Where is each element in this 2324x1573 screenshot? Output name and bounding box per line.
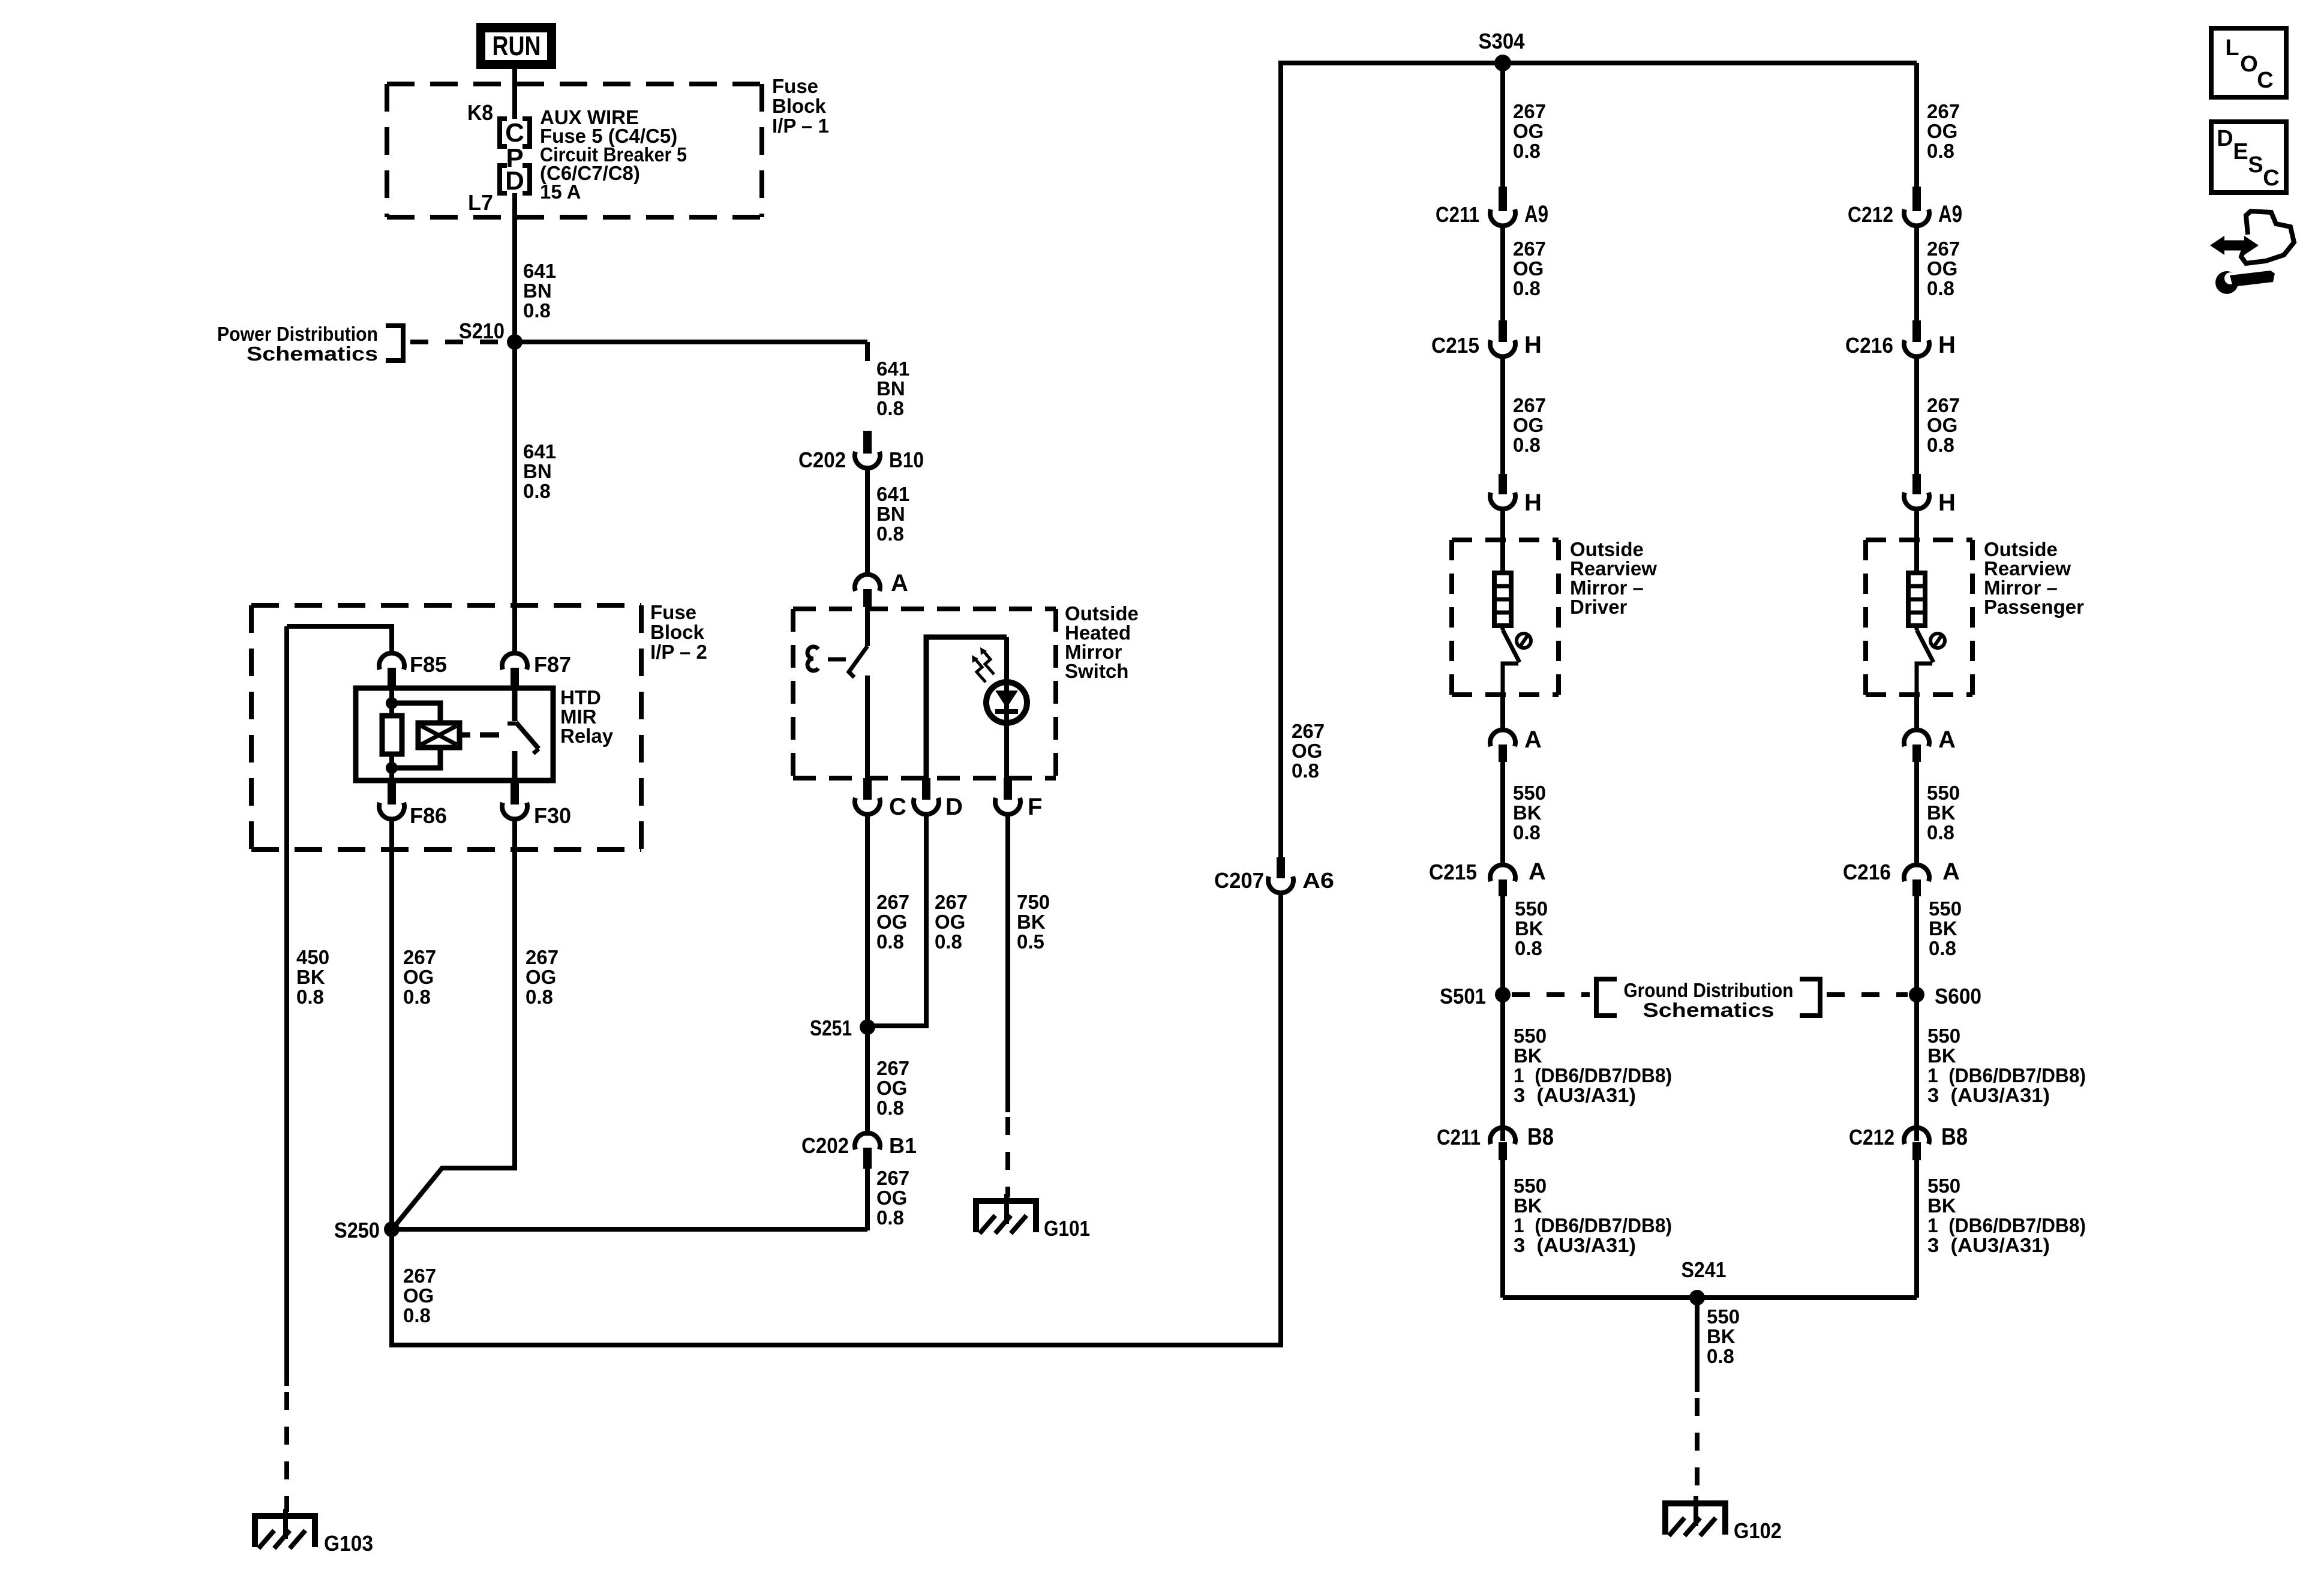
svg-text:H: H	[1938, 490, 1956, 516]
svg-text:Schematics: Schematics	[247, 343, 378, 365]
svg-text:641: 641	[523, 260, 556, 282]
svg-text:0.8: 0.8	[1927, 140, 1954, 162]
svg-text:641: 641	[876, 358, 909, 380]
svg-text:0.8: 0.8	[1707, 1345, 1734, 1367]
outside rearview mirror name label	[1984, 538, 2084, 618]
splice S501	[1440, 984, 1511, 1008]
fuse block I/P-1 dashed outline	[387, 84, 762, 217]
svg-text:BK: BK	[1515, 917, 1544, 939]
svg-text:C215: C215	[1431, 333, 1479, 358]
svg-text:267: 267	[1292, 720, 1325, 742]
LED light arrows	[972, 647, 994, 682]
svg-text:S501: S501	[1440, 984, 1486, 1008]
connector C212 pin B8	[1849, 1124, 1968, 1160]
svg-text:OG: OG	[1513, 257, 1544, 280]
svg-text:267: 267	[1927, 238, 1960, 260]
wire pin D to S251	[867, 813, 926, 1026]
wire label 550 BK 0.8 (below mirror)	[1513, 782, 1546, 843]
svg-text:267: 267	[876, 1057, 909, 1079]
svg-text:BK: BK	[1927, 1194, 1956, 1217]
svg-text:0.8: 0.8	[403, 986, 431, 1008]
svg-text:A: A	[1524, 727, 1542, 753]
svg-text:C: C	[889, 794, 906, 820]
main feed wire from S304	[1278, 61, 1917, 65]
svg-text:OG: OG	[1513, 120, 1544, 142]
wire label 267 OG 0.8 (C211 top)	[1513, 100, 1546, 162]
svg-text:BK: BK	[1927, 801, 1956, 824]
wire label 750 BK 0.5 (pin F)	[1017, 891, 1050, 953]
mirror heater element	[1908, 573, 1925, 626]
service icon outline shape	[2241, 211, 2294, 263]
svg-text:C202: C202	[798, 448, 846, 472]
wire pin F to ground G101	[1005, 813, 1010, 1197]
svg-text:267: 267	[403, 1265, 436, 1287]
svg-text:OG: OG	[403, 966, 434, 988]
svg-text:F86: F86	[410, 803, 447, 828]
svg-text:BN: BN	[523, 460, 552, 482]
jumper wire to F85	[287, 626, 392, 654]
fuse block I/P-1 name label	[772, 75, 829, 137]
svg-text:1 (DB6/DB7/DB8): 1 (DB6/DB7/DB8)	[1927, 1064, 2086, 1086]
svg-text:0.8: 0.8	[1515, 937, 1542, 959]
svg-text:E: E	[2233, 139, 2248, 164]
svg-text:Driver: Driver	[1570, 596, 1628, 618]
svg-text:A9: A9	[1524, 201, 1548, 227]
svg-text:Block: Block	[650, 621, 705, 643]
svg-text:BK: BK	[1929, 917, 1957, 939]
svg-text:F: F	[1028, 794, 1042, 820]
indicator LED	[986, 682, 1027, 723]
svg-text:I/P – 2: I/P – 2	[650, 641, 707, 663]
svg-text:B10: B10	[889, 448, 924, 472]
wire label 550 BK 0.8 (to splice)	[1929, 897, 1962, 959]
wire label 267 OG 0.8 (to mirror)	[1513, 394, 1546, 456]
svg-text:S241: S241	[1682, 1257, 1727, 1282]
svg-text:550: 550	[1514, 1175, 1547, 1197]
connector C215 pin A	[1429, 858, 1546, 896]
mirror connector pin A	[1904, 727, 1956, 762]
wire into mirror	[1500, 508, 1505, 574]
wire C215 A to splice	[1500, 896, 1505, 1141]
svg-text:0.8: 0.8	[1513, 434, 1541, 456]
svg-text:0.8: 0.8	[1929, 937, 1956, 959]
wire label 267 OG 0.8 (below C202 B1)	[876, 1167, 909, 1229]
junction S210	[459, 319, 523, 350]
connector F87	[502, 652, 571, 687]
svg-text:BK: BK	[1707, 1325, 1736, 1347]
wire to mirror conn H	[1500, 356, 1505, 474]
svg-text:S210: S210	[459, 319, 505, 343]
wire label 267 OG 0.8 (S250 down)	[403, 1265, 436, 1326]
svg-text:550: 550	[1514, 1025, 1547, 1047]
wire RUN to fuse block	[512, 69, 517, 119]
ground G102	[1662, 1496, 1782, 1543]
wire to mirror conn H	[1914, 356, 1919, 474]
connector pin F	[995, 778, 1042, 820]
connector A of heated mirror switch	[855, 570, 908, 607]
svg-text:Ground Distribution: Ground Distribution	[1624, 979, 1794, 1001]
svg-text:267: 267	[1513, 100, 1546, 122]
svg-text:OG: OG	[876, 911, 907, 933]
svg-text:Power Distribution: Power Distribution	[217, 323, 378, 345]
junction S241	[1682, 1257, 1727, 1305]
connector pin C	[855, 778, 906, 820]
wire bottom run to S241	[1503, 1295, 1917, 1300]
svg-text:L7: L7	[468, 190, 493, 215]
svg-text:C215: C215	[1429, 860, 1477, 884]
svg-text:750: 750	[1017, 891, 1050, 913]
svg-text:C211: C211	[1436, 202, 1479, 227]
svg-text:F85: F85	[410, 652, 447, 677]
svg-text:A: A	[891, 570, 908, 596]
svg-text:OG: OG	[403, 1284, 434, 1307]
connector F85	[379, 652, 447, 687]
svg-text:550: 550	[1927, 782, 1960, 804]
svg-text:S304: S304	[1479, 29, 1525, 53]
connector C202 pin B1	[801, 1133, 917, 1169]
mirror thermal switch	[1503, 626, 1531, 695]
svg-text:0.8: 0.8	[876, 1206, 904, 1229]
svg-text:A: A	[1529, 858, 1546, 885]
DESC reference box	[2211, 122, 2286, 193]
svg-text:0.8: 0.8	[1513, 140, 1541, 162]
svg-text:15 A: 15 A	[540, 181, 581, 203]
svg-text:0.8: 0.8	[1292, 760, 1319, 782]
svg-text:C216: C216	[1845, 333, 1893, 358]
svg-text:OG: OG	[1927, 414, 1957, 436]
connector C212 pin A9	[1848, 187, 1962, 227]
connector C211 pin A9	[1436, 187, 1548, 227]
svg-text:0.8: 0.8	[1927, 434, 1954, 456]
wire label 641 BN 0.8 (fuse to S210)	[523, 260, 556, 322]
wire label 267 OG 0.8 (C212 top)	[1927, 100, 1960, 162]
svg-text:550: 550	[1929, 897, 1962, 920]
svg-text:BN: BN	[876, 377, 905, 400]
svg-text:BN: BN	[876, 503, 905, 525]
fuse block I/P-2 name label	[650, 601, 707, 663]
svg-text:0.8: 0.8	[1513, 821, 1541, 843]
connector F86	[379, 781, 447, 828]
svg-text:OG: OG	[876, 1187, 907, 1209]
svg-text:A: A	[1942, 858, 1960, 885]
ignition switch RUN feed box	[476, 23, 556, 69]
wire label 267 OG 0.8 (C207 column)	[1292, 720, 1325, 782]
service icon wrench	[2215, 271, 2275, 294]
junction S251	[810, 1016, 875, 1040]
svg-text:450: 450	[296, 946, 329, 968]
outside rearview mirror dashed outline	[1452, 540, 1559, 695]
svg-text:F30: F30	[534, 803, 571, 828]
wire C202 B10 to switch conn A	[865, 467, 870, 576]
outside rearview mirror dashed outline	[1866, 540, 1972, 695]
svg-text:1 (DB6/DB7/DB8): 1 (DB6/DB7/DB8)	[1927, 1214, 2086, 1236]
ground distribution schematics reference	[1512, 979, 1908, 1021]
svg-text:BN: BN	[523, 280, 552, 302]
svg-text:OG: OG	[935, 911, 965, 933]
fuse description text	[540, 106, 687, 203]
svg-text:Passenger: Passenger	[1984, 596, 2084, 618]
svg-text:A: A	[1938, 727, 1956, 753]
svg-text:3 (AU3/A31): 3 (AU3/A31)	[1927, 1084, 2050, 1106]
svg-text:OG: OG	[876, 1077, 907, 1099]
svg-text:OG: OG	[526, 966, 556, 988]
wire C207 column up to S304 run	[1278, 63, 1283, 857]
svg-text:3 (AU3/A31): 3 (AU3/A31)	[1514, 1234, 1636, 1256]
relay switch	[508, 688, 539, 781]
HTD MIR relay name label	[560, 686, 614, 747]
svg-text:BK: BK	[1513, 801, 1542, 824]
relay resistor branch	[382, 688, 402, 781]
svg-text:0.8: 0.8	[935, 930, 962, 953]
svg-text:C211: C211	[1437, 1125, 1481, 1149]
svg-text:267: 267	[1927, 100, 1960, 122]
svg-text:267: 267	[876, 891, 909, 913]
svg-text:0.8: 0.8	[523, 480, 551, 502]
svg-text:0.8: 0.8	[876, 397, 904, 419]
svg-text:BK: BK	[1514, 1194, 1542, 1217]
connector C215 pin H	[1431, 320, 1542, 358]
svg-text:0.8: 0.8	[1927, 821, 1954, 843]
wire mirror pin A down	[1914, 762, 1919, 866]
svg-text:S251: S251	[810, 1016, 852, 1040]
svg-text:C: C	[2263, 166, 2279, 191]
svg-text:641: 641	[876, 483, 909, 505]
wire label 450 BK 0.8	[296, 946, 329, 1008]
wire label 641 BN 0.8 (S210 to C202)	[876, 358, 909, 419]
svg-text:1 (DB6/DB7/DB8): 1 (DB6/DB7/DB8)	[1514, 1214, 1672, 1236]
wire S501 column top	[1500, 63, 1505, 187]
svg-text:0.8: 0.8	[403, 1304, 431, 1326]
wire label 550 BK DB/AU (lower)	[1514, 1175, 1672, 1256]
svg-text:Fuse: Fuse	[650, 601, 696, 623]
svg-text:I/P – 1: I/P – 1	[772, 115, 829, 137]
relay actuator dashed link	[461, 733, 508, 738]
mirror connector pin A	[1490, 727, 1542, 762]
svg-text:C212: C212	[1848, 202, 1893, 227]
wire label 267 OG 0.8 (S251 to C202 B1)	[876, 1057, 909, 1119]
junction S250	[334, 1218, 400, 1242]
junction S304	[1479, 29, 1525, 71]
wire C216 A to splice	[1914, 896, 1919, 1141]
wire mirror to pin A	[1500, 695, 1505, 731]
wire label 550 BK DB/AU (upper)	[1514, 1025, 1672, 1106]
svg-text:Switch: Switch	[1065, 660, 1128, 682]
svg-text:Block: Block	[772, 95, 827, 117]
wire pin C to S251	[865, 813, 870, 1027]
svg-text:G101: G101	[1044, 1216, 1090, 1241]
svg-text:267: 267	[1513, 238, 1546, 260]
svg-text:550: 550	[1927, 1025, 1960, 1047]
wire label 550 BK 0.8 (to splice)	[1515, 897, 1548, 959]
wire F30 to S250	[394, 818, 515, 1227]
svg-text:0.5: 0.5	[1017, 930, 1044, 953]
svg-text:S250: S250	[334, 1218, 380, 1242]
connector F30	[502, 781, 571, 828]
wire F86 to S250	[389, 818, 394, 1229]
svg-text:267: 267	[526, 946, 559, 968]
svg-text:H: H	[1524, 332, 1542, 358]
wire C211 B8 to S241 run	[1500, 1160, 1505, 1298]
svg-text:G103: G103	[324, 1531, 373, 1556]
svg-text:0.8: 0.8	[526, 986, 553, 1008]
svg-text:0.8: 0.8	[1927, 277, 1954, 299]
svg-text:Fuse: Fuse	[772, 75, 818, 97]
power distribution schematics reference	[217, 323, 508, 365]
svg-text:OG: OG	[1927, 257, 1957, 280]
wire S210 to C202 B10	[515, 342, 867, 361]
ground G103	[252, 1509, 373, 1556]
wire S250 to C202 B1 column	[392, 1227, 867, 1232]
svg-text:D: D	[945, 794, 963, 820]
connector pin D	[914, 778, 963, 820]
wire 450 BK to ground G103	[284, 626, 289, 1512]
connector C216 pin A	[1843, 858, 1960, 896]
svg-text:267: 267	[403, 946, 436, 968]
wire label 550 BK DB/AU (upper)	[1927, 1025, 2086, 1106]
wire label 267 OG 0.8 (to C215 H)	[1513, 238, 1546, 299]
svg-text:C207: C207	[1214, 868, 1264, 893]
svg-text:BK: BK	[1927, 1044, 1956, 1067]
wire S210 down to F87	[512, 342, 517, 654]
LOC reference box	[2211, 28, 2286, 97]
svg-text:G102: G102	[1734, 1518, 1782, 1543]
wire label 641 BN 0.8 (S210 to fuse block 2)	[523, 440, 556, 502]
connector C216 pin H	[1845, 320, 1956, 358]
svg-text:B8: B8	[1527, 1124, 1554, 1150]
svg-text:0.8: 0.8	[523, 299, 551, 322]
wire label 267 OG 0.8 (pin D)	[935, 891, 968, 953]
svg-text:RUN: RUN	[493, 31, 541, 61]
wire S251 to C202 B1	[865, 1027, 870, 1136]
svg-text:D: D	[505, 166, 524, 196]
svg-text:A6: A6	[1302, 868, 1334, 893]
svg-text:1 (DB6/DB7/DB8): 1 (DB6/DB7/DB8)	[1514, 1064, 1672, 1086]
wire C202 B1 down to S250 run	[865, 1169, 870, 1230]
wire label 550 BK DB/AU (lower)	[1927, 1175, 2086, 1256]
svg-text:267: 267	[1513, 394, 1546, 416]
switch contact and blade	[807, 607, 867, 778]
svg-text:267: 267	[935, 891, 968, 913]
connector C207 pin A6	[1214, 857, 1334, 893]
mirror connector pin H	[1490, 474, 1542, 516]
mirror heater element	[1494, 573, 1511, 626]
connector C202 pin B10	[798, 431, 924, 472]
wire label 267 OG 0.8 (pin C)	[876, 891, 909, 953]
svg-text:K8: K8	[467, 100, 493, 125]
svg-text:Relay: Relay	[560, 725, 614, 747]
wire mirror pin A down	[1500, 762, 1505, 866]
svg-text:OG: OG	[1513, 414, 1544, 436]
svg-text:C216: C216	[1843, 860, 1891, 884]
svg-text:B1: B1	[889, 1133, 917, 1158]
svg-text:0.8: 0.8	[296, 986, 324, 1008]
outside heated mirror switch dashed outline	[793, 609, 1056, 778]
wire label 641 BN 0.8 (below C202 B10)	[876, 483, 909, 545]
svg-text:BK: BK	[296, 966, 325, 988]
fuse block I/P-2 dashed outline	[251, 605, 641, 849]
svg-text:A9: A9	[1938, 201, 1962, 227]
svg-text:O: O	[2240, 52, 2258, 77]
svg-text:0.8: 0.8	[1513, 277, 1541, 299]
svg-text:0.8: 0.8	[876, 523, 904, 545]
svg-text:B8: B8	[1941, 1124, 1968, 1150]
svg-text:3 (AU3/A31): 3 (AU3/A31)	[1927, 1234, 2050, 1256]
svg-text:267: 267	[876, 1167, 909, 1189]
wire mirror to pin A	[1914, 695, 1919, 731]
wire S600 column top	[1914, 63, 1919, 187]
wire to C216 H	[1914, 225, 1919, 320]
svg-text:C212: C212	[1849, 1125, 1894, 1149]
terminal L7 label	[468, 190, 493, 215]
svg-text:L: L	[2225, 35, 2239, 61]
svg-text:550: 550	[1513, 782, 1546, 804]
wire label 267 OG 0.8 (to C216 H)	[1927, 238, 1960, 299]
wire label 267 OG 0.8 (F86)	[403, 946, 436, 1008]
mirror connector pin H	[1904, 474, 1956, 516]
wire to C215 H	[1500, 225, 1505, 320]
svg-text:0.8: 0.8	[876, 1097, 904, 1119]
svg-text:H: H	[1524, 490, 1542, 516]
wire label 267 OG 0.8 (F30)	[526, 946, 559, 1008]
fuse 5 / circuit breaker 5 element (C-P-D)	[500, 118, 530, 196]
wire S250 down and across to C207	[392, 894, 1281, 1345]
ground G101	[973, 1194, 1090, 1241]
svg-text:3 (AU3/A31): 3 (AU3/A31)	[1514, 1084, 1636, 1106]
svg-text:550: 550	[1707, 1305, 1740, 1328]
connector C211 pin B8	[1437, 1124, 1554, 1160]
outside heated mirror switch name label	[1065, 602, 1139, 682]
svg-text:BK: BK	[1017, 911, 1046, 933]
svg-text:641: 641	[523, 440, 556, 463]
svg-text:S600: S600	[1935, 984, 1981, 1008]
svg-text:BK: BK	[1514, 1044, 1542, 1067]
svg-text:Schematics: Schematics	[1643, 999, 1774, 1021]
svg-text:F87: F87	[534, 652, 571, 677]
outside rearview mirror name label	[1570, 538, 1657, 618]
svg-text:0.8: 0.8	[876, 930, 904, 953]
wire label 550 BK 0.8 (below mirror)	[1927, 782, 1960, 843]
splice S600	[1909, 984, 1981, 1008]
wire S241 to ground G102	[1695, 1298, 1700, 1497]
wire fuse to S210 junction	[512, 193, 517, 342]
relay coil	[392, 703, 460, 768]
svg-text:550: 550	[1927, 1175, 1960, 1197]
svg-text:S: S	[2248, 152, 2263, 178]
svg-text:C: C	[2257, 68, 2273, 93]
HTD MIR relay outline	[356, 688, 553, 781]
wire into mirror	[1914, 508, 1919, 574]
svg-text:H: H	[1938, 332, 1956, 358]
wire label 550 BK 0.8 (S241)	[1707, 1305, 1740, 1367]
svg-text:OG: OG	[1292, 740, 1322, 762]
svg-text:OG: OG	[1927, 120, 1957, 142]
wire label 267 OG 0.8 (to mirror)	[1927, 394, 1960, 456]
indicator LED branch wiring	[926, 637, 1007, 778]
wire C212 B8 to S241 run	[1914, 1160, 1919, 1298]
svg-text:267: 267	[1927, 394, 1960, 416]
svg-text:C202: C202	[801, 1133, 849, 1158]
service icon double arrow	[2210, 236, 2259, 255]
mirror thermal switch	[1917, 626, 1945, 695]
svg-text:D: D	[2217, 126, 2233, 151]
terminal K8 label	[467, 100, 493, 125]
svg-text:550: 550	[1515, 897, 1548, 920]
